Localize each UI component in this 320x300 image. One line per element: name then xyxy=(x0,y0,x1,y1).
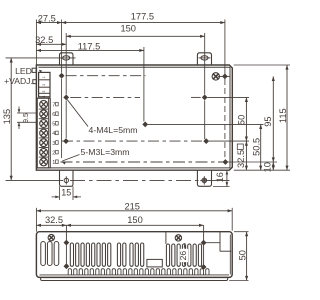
case screw side-left xyxy=(48,234,54,240)
svg-text:135: 135 xyxy=(2,109,12,125)
dimension 50/32.5 vertical line xyxy=(245,97,248,170)
leader 4-M4L xyxy=(67,100,88,127)
column mid line xyxy=(143,47,145,121)
row B centerline xyxy=(70,96,201,98)
svg-text:4-M4L=5mm: 4-M4L=5mm xyxy=(89,125,138,135)
dimension text 215 xyxy=(124,201,140,211)
dimension 32.5/150 side line xyxy=(36,224,203,227)
case top right extension xyxy=(234,64,290,66)
dimension text 117.5 xyxy=(78,42,101,52)
dimension text 32.5 side xyxy=(45,215,63,225)
svg-text:177.5: 177.5 xyxy=(131,11,154,21)
base plate strip xyxy=(41,277,228,280)
hole row B right diamond xyxy=(202,95,208,101)
case bottom right extension xyxy=(234,169,290,171)
column B line xyxy=(224,20,226,163)
dimension 215 line xyxy=(36,208,232,232)
vent slots group B xyxy=(117,243,126,266)
dimension text 26 xyxy=(178,249,188,262)
svg-text:15: 15 xyxy=(61,188,71,198)
hole row D right diamond xyxy=(223,159,229,165)
svg-text:7: 7 xyxy=(52,102,55,108)
side left diamond column line xyxy=(65,225,67,266)
svg-text:4: 4 xyxy=(42,95,46,97)
svg-text:215: 215 xyxy=(124,201,140,211)
dimension text 32.5 xyxy=(35,35,53,45)
side diamond right-bottom xyxy=(201,264,207,270)
label 4-M4L=5mm xyxy=(89,125,138,135)
column ear1 line xyxy=(65,33,67,138)
dimension text 15 xyxy=(61,188,71,198)
svg-text:95: 95 xyxy=(263,116,273,126)
svg-text:5-M3L=3mm: 5-M3L=3mm xyxy=(81,147,130,157)
small terminal block (LED/VADJ) xyxy=(39,72,50,97)
left oval vents xyxy=(41,242,59,266)
main terminal block with 7 screws xyxy=(37,98,50,168)
hole row C right diamond xyxy=(203,138,209,144)
case screw top-right xyxy=(212,73,219,80)
bottom tab centerline xyxy=(6,179,230,181)
svg-text:150: 150 xyxy=(127,215,143,225)
terminal numbers 7-1 xyxy=(52,102,58,166)
dimension 26 line xyxy=(184,243,187,267)
dimension 32.5 line xyxy=(36,43,66,46)
label 5-M3L=3mm xyxy=(81,147,130,157)
svg-text:5: 5 xyxy=(52,122,55,128)
dimension 16 lines xyxy=(213,170,230,186)
svg-text:+VADJ.: +VADJ. xyxy=(4,76,33,86)
dimension text 50.5 xyxy=(252,138,262,156)
svg-text:9.5: 9.5 xyxy=(23,113,30,123)
svg-text:27.5: 27.5 xyxy=(38,13,56,23)
row B right extension xyxy=(208,96,250,98)
hole row A right diamond xyxy=(218,74,230,80)
dimension text 135 xyxy=(2,109,12,125)
dimension 50.5 vertical line xyxy=(259,124,262,170)
svg-text:50: 50 xyxy=(237,115,247,125)
row C right extension xyxy=(209,140,249,142)
svg-text:LED: LED xyxy=(15,66,32,76)
svg-text:1: 1 xyxy=(52,160,55,166)
label LED xyxy=(15,66,32,76)
dimension 117.5 line xyxy=(36,49,143,52)
side right diamond column line xyxy=(203,225,205,267)
vent area left boundary xyxy=(165,232,167,244)
svg-text:50: 50 xyxy=(237,250,247,260)
dimension 15 lines xyxy=(52,186,82,200)
dimension 27.5/177.5 line xyxy=(36,21,225,24)
power supply case outline (top view) xyxy=(36,65,232,170)
label +VADJ. xyxy=(4,76,33,86)
svg-text:50.5: 50.5 xyxy=(252,138,262,156)
svg-text:115: 115 xyxy=(278,108,288,123)
column A line xyxy=(61,20,63,159)
svg-text:2: 2 xyxy=(42,84,46,86)
LED square xyxy=(32,68,42,73)
svg-text:117.5: 117.5 xyxy=(78,42,101,52)
bottom arch perforations xyxy=(68,269,209,275)
svg-text:32.5: 32.5 xyxy=(236,150,246,168)
svg-text:10: 10 xyxy=(262,162,272,172)
vent slots group C xyxy=(130,243,144,266)
svg-text:6: 6 xyxy=(52,112,55,118)
bottom tab right with hole xyxy=(197,170,211,186)
row D right extension xyxy=(228,161,277,163)
hole row B left diamond xyxy=(63,95,69,101)
ear slot centerline xyxy=(6,57,76,59)
dimension text 115 xyxy=(278,108,288,123)
svg-text:32.5: 32.5 xyxy=(45,215,63,225)
svg-text:26: 26 xyxy=(178,251,188,261)
hole row A left diamond xyxy=(59,73,65,79)
dimension text 32.5sq xyxy=(236,144,246,168)
leader 5-M3L xyxy=(61,155,80,165)
svg-text:3: 3 xyxy=(52,141,55,147)
dimension text 27.5 xyxy=(38,13,56,23)
case screw side-mid xyxy=(175,235,181,241)
center hole diamond xyxy=(142,122,148,128)
svg-text:1: 1 xyxy=(42,76,46,78)
dimension 115 vertical line xyxy=(285,65,288,170)
dimension 50 side line xyxy=(229,232,248,281)
opening rectangle xyxy=(147,259,162,267)
svg-text:150: 150 xyxy=(120,24,136,34)
dimension text 50 right xyxy=(237,115,247,125)
dimension text 95 xyxy=(263,116,273,126)
center hole line to right xyxy=(148,123,264,125)
dimension text 177.5 xyxy=(131,11,154,21)
terminal box line xyxy=(204,232,232,252)
svg-text:16: 16 xyxy=(215,172,225,182)
dimension 150 line xyxy=(66,35,205,38)
VADJ square xyxy=(33,80,37,84)
row A centerline xyxy=(66,75,146,77)
dimension text 150 side xyxy=(127,215,143,225)
side diamond left-bottom xyxy=(64,263,70,269)
column ear2 line xyxy=(204,33,206,139)
dimension text 150 xyxy=(120,24,136,34)
dimension text 50 side xyxy=(237,250,247,260)
svg-text:4: 4 xyxy=(52,131,55,137)
left edge extension line xyxy=(35,20,37,66)
dimension text 16 xyxy=(215,172,225,182)
case outline (side view) xyxy=(36,232,232,278)
svg-text:2: 2 xyxy=(52,150,55,156)
side diamond right-top xyxy=(201,240,207,246)
case bottom inner line xyxy=(40,274,230,276)
dimension text 10 xyxy=(262,162,272,172)
row D centerline xyxy=(61,161,224,163)
dimension 9.5 lines xyxy=(17,107,36,130)
svg-text:32.5: 32.5 xyxy=(35,35,53,45)
vent slots group A xyxy=(70,243,111,266)
bottom tab left with hole xyxy=(60,170,74,186)
dimension 95/10 vertical line xyxy=(272,76,275,170)
svg-text:3: 3 xyxy=(42,90,46,92)
side diamond left-top xyxy=(64,240,70,246)
case right inner line xyxy=(229,235,231,275)
mounting ear top-left with slot xyxy=(60,53,74,65)
dimension 135 line xyxy=(10,58,13,180)
hole row C left diamond xyxy=(63,138,69,144)
row C centerline xyxy=(62,140,206,142)
mounting ear top-right with slot xyxy=(197,53,211,65)
vent slots group D xyxy=(166,244,201,266)
dimension text 9.5 xyxy=(23,113,30,123)
